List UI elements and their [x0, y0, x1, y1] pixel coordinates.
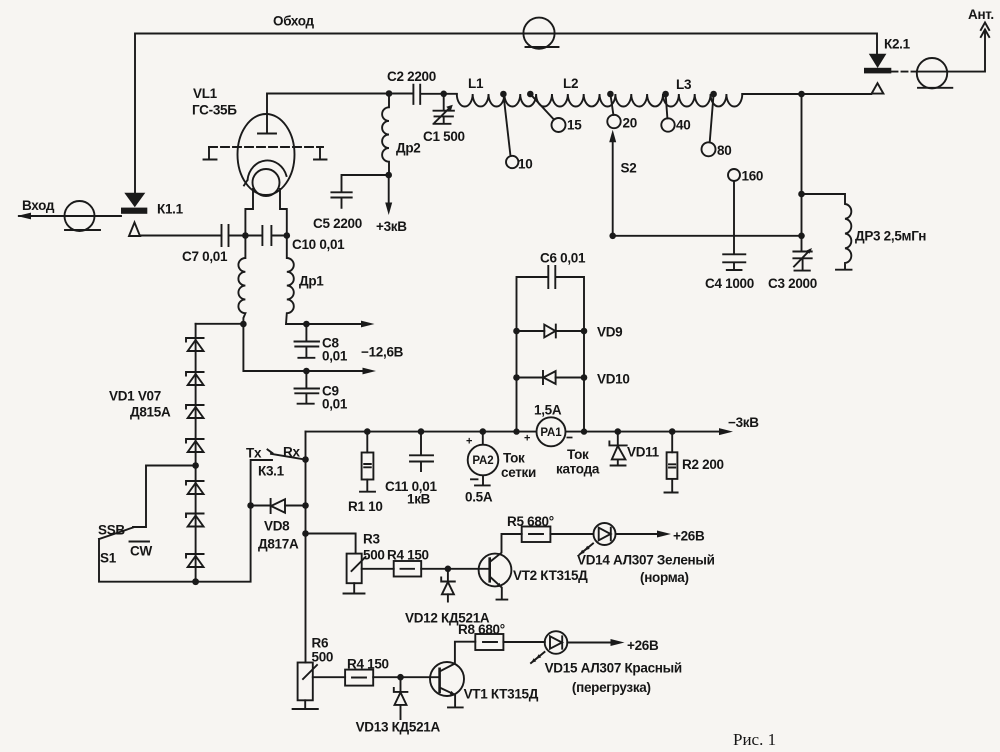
svg-text:160: 160 — [742, 169, 764, 184]
svg-text:VL1: VL1 — [193, 86, 218, 101]
svg-text:катода: катода — [556, 462, 600, 477]
svg-text:VD15 АЛ307 Красный: VD15 АЛ307 Красный — [545, 661, 682, 676]
svg-text:CW: CW — [130, 544, 152, 559]
svg-text:10: 10 — [518, 157, 532, 172]
svg-text:Вход: Вход — [22, 198, 55, 213]
svg-text:S1: S1 — [100, 551, 117, 566]
svg-text:+26В: +26В — [673, 529, 705, 544]
svg-text:−12,6В: −12,6В — [361, 345, 404, 360]
svg-text:Ток: Ток — [567, 447, 589, 462]
svg-text:R5 680°: R5 680° — [507, 514, 554, 529]
svg-text:Рис. 1: Рис. 1 — [733, 730, 776, 749]
svg-text:1,5А: 1,5А — [534, 403, 562, 418]
svg-text:L1: L1 — [468, 76, 484, 91]
svg-text:К2.1: К2.1 — [884, 37, 911, 52]
svg-text:ГС-35Б: ГС-35Б — [192, 103, 237, 118]
svg-text:VD9: VD9 — [597, 325, 622, 340]
svg-text:К1.1: К1.1 — [157, 202, 184, 217]
svg-text:сетки: сетки — [501, 465, 536, 480]
svg-text:РА2: РА2 — [472, 455, 493, 467]
svg-text:+3кВ: +3кВ — [376, 219, 407, 234]
svg-text:Rx: Rx — [283, 445, 300, 460]
svg-text:R8 680°: R8 680° — [458, 622, 505, 637]
svg-text:−3кВ: −3кВ — [728, 415, 759, 430]
svg-text:Др1: Др1 — [299, 274, 324, 289]
svg-text:VD14 АЛ307 Зеленый: VD14 АЛ307 Зеленый — [577, 553, 715, 568]
svg-text:15: 15 — [567, 118, 582, 133]
svg-text:VD8: VD8 — [264, 519, 290, 534]
svg-text:С4 1000: С4 1000 — [705, 276, 754, 291]
svg-text:Ток: Ток — [503, 451, 525, 466]
svg-text:С5 2200: С5 2200 — [313, 216, 362, 231]
svg-text:80: 80 — [717, 143, 731, 158]
svg-text:R6: R6 — [312, 636, 329, 651]
svg-text:40: 40 — [676, 118, 690, 133]
svg-text:С10 0,01: С10 0,01 — [292, 237, 345, 252]
svg-text:0,01: 0,01 — [322, 349, 348, 364]
svg-text:Обход: Обход — [273, 14, 315, 29]
svg-text:R4 150: R4 150 — [387, 548, 429, 563]
svg-text:S2: S2 — [621, 161, 637, 176]
svg-text:R1 10: R1 10 — [348, 499, 383, 514]
svg-text:VT2 КТ315Д: VT2 КТ315Д — [513, 568, 588, 583]
svg-text:R3: R3 — [363, 532, 380, 547]
svg-text:VD11: VD11 — [627, 445, 660, 460]
svg-text:VT1 КТ315Д: VT1 КТ315Д — [464, 687, 539, 702]
svg-text:VD10: VD10 — [597, 372, 630, 387]
svg-text:+: + — [524, 433, 530, 445]
svg-text:С7 0,01: С7 0,01 — [182, 249, 228, 264]
svg-text:Д815А: Д815А — [130, 405, 171, 420]
svg-text:(перегрузка): (перегрузка) — [572, 680, 651, 695]
svg-text:+26В: +26В — [627, 638, 659, 653]
svg-text:R4 150: R4 150 — [347, 657, 389, 672]
svg-text:Д817А: Д817А — [258, 537, 299, 552]
svg-text:VD1 V07: VD1 V07 — [109, 389, 161, 404]
svg-text:1кВ: 1кВ — [407, 492, 431, 507]
svg-text:500: 500 — [363, 548, 385, 563]
svg-text:20: 20 — [623, 116, 637, 131]
svg-text:SSB: SSB — [98, 523, 125, 538]
svg-text:(норма): (норма) — [640, 570, 689, 585]
svg-text:С1 500: С1 500 — [423, 129, 465, 144]
svg-text:С6 0,01: С6 0,01 — [540, 251, 586, 266]
svg-text:Др2: Др2 — [396, 141, 420, 156]
svg-text:ДР3 2,5мГн: ДР3 2,5мГн — [855, 229, 926, 244]
svg-text:R2 200: R2 200 — [682, 457, 724, 472]
svg-text:0.5А: 0.5А — [465, 490, 493, 505]
svg-text:С2 2200: С2 2200 — [387, 69, 436, 84]
svg-text:L3: L3 — [676, 77, 692, 92]
svg-text:Ант.: Ант. — [968, 7, 994, 22]
svg-text:К3.1: К3.1 — [258, 464, 285, 479]
svg-text:Tx: Tx — [246, 446, 262, 461]
svg-text:VD13 КД521А: VD13 КД521А — [356, 720, 441, 735]
svg-text:+: + — [466, 436, 472, 448]
svg-text:500: 500 — [312, 650, 334, 665]
svg-text:РА1: РА1 — [540, 427, 562, 439]
svg-text:L2: L2 — [563, 76, 578, 91]
svg-text:С3 2000: С3 2000 — [768, 276, 817, 291]
svg-text:0,01: 0,01 — [322, 397, 348, 412]
